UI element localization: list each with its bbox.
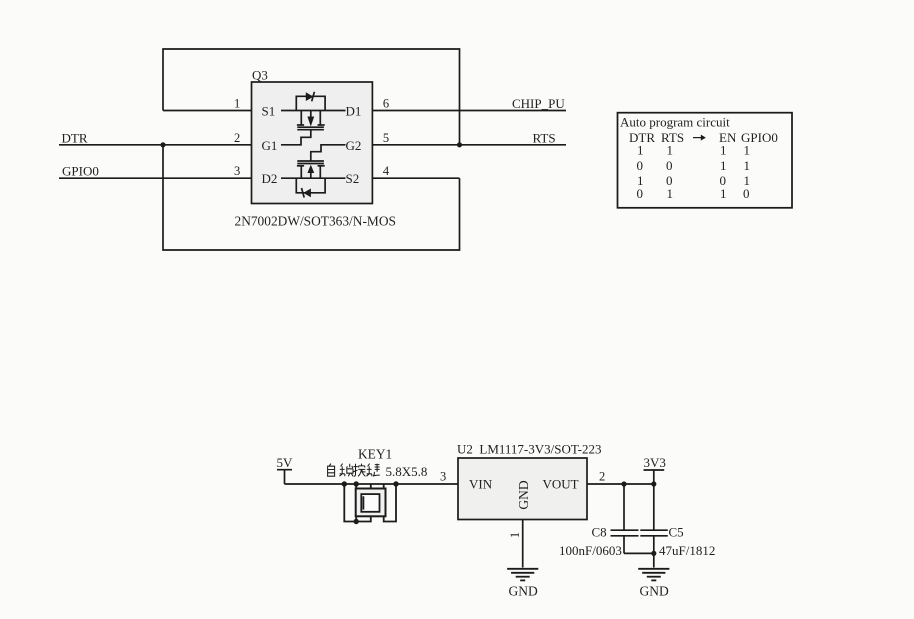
svg-text:1: 1	[720, 143, 727, 158]
ground symbol left	[507, 569, 538, 581]
wire: pin5 G2 to RTS	[372, 144, 566, 146]
svg-text:C5: C5	[669, 525, 684, 540]
svg-text:D2: D2	[262, 171, 278, 186]
mosfet M2 channel bar upper	[297, 160, 324, 162]
mosfet M1 diode cathode bar	[312, 92, 315, 102]
junction dot: switch right	[393, 481, 398, 486]
svg-text:1: 1	[720, 186, 727, 201]
svg-text:0: 0	[637, 186, 644, 201]
mosfet M1 drain serif	[318, 124, 325, 126]
glyph jian	[367, 464, 380, 477]
wire: VOUT to 3V3	[587, 483, 654, 485]
svg-text:1: 1	[667, 186, 674, 201]
mosfet M2 channel bar lower	[297, 163, 324, 165]
junction dot: switch bottom	[354, 519, 359, 524]
svg-text:Q3: Q3	[252, 68, 268, 83]
svg-text:C8: C8	[592, 525, 607, 540]
svg-text:1: 1	[720, 158, 727, 173]
mosfet M1 channel bar upper	[297, 126, 324, 128]
svg-text:1: 1	[508, 532, 522, 538]
switch pin stub top-left	[355, 484, 357, 489]
mosfet M2 source contact	[319, 166, 321, 178]
mosfet M1 drain contact	[319, 111, 321, 126]
junction dot: DTR node	[160, 142, 165, 147]
junction dot: C8 top	[621, 481, 626, 486]
svg-text:5.8X5.8: 5.8X5.8	[386, 464, 428, 479]
wire: S1 pin1 to top rail to RTS junction	[163, 49, 460, 145]
wire: GPIO0 lead to pin3 D2	[59, 177, 252, 179]
svg-text:RTS: RTS	[533, 130, 556, 145]
svg-text:0: 0	[637, 158, 644, 173]
wire: pin4 S2 lead	[372, 177, 459, 179]
switch pin stub top-mid	[370, 484, 372, 489]
switch left loop wire	[344, 484, 371, 522]
svg-text:3: 3	[440, 470, 446, 484]
mosfet M1 source serif	[297, 124, 304, 126]
svg-text:47uF/1812: 47uF/1812	[659, 543, 715, 558]
mosfet M2 body arrow head	[307, 165, 314, 173]
mosfet M2 source serif	[318, 165, 325, 167]
wire: cap bottoms rail	[624, 553, 654, 567]
wire: DTR junction down bottom rail to pin4 S2	[163, 145, 460, 250]
svg-text:GND: GND	[640, 584, 669, 599]
svg-text:6: 6	[383, 97, 389, 111]
svg-text:2: 2	[234, 131, 240, 145]
svg-text:1: 1	[637, 143, 644, 158]
svg-text:U2 LM1117-3V3/SOT-223: U2 LM1117-3V3/SOT-223	[457, 442, 601, 457]
svg-text:Auto program circuit: Auto program circuit	[620, 115, 730, 130]
svg-text:4: 4	[383, 164, 390, 178]
wire: pin1 S1 lead	[163, 110, 252, 112]
wire: pin6 D1 to CHIP_PU	[372, 110, 566, 112]
switch body	[356, 489, 386, 517]
mosfet M1 diode triangle	[306, 92, 314, 101]
svg-text:1: 1	[667, 143, 674, 158]
svg-text:3V3: 3V3	[644, 455, 666, 470]
svg-text:1: 1	[744, 143, 751, 158]
mosfet M1 body arrow head	[307, 117, 314, 127]
glyph suo	[340, 464, 354, 477]
svg-text:DTR: DTR	[62, 130, 88, 145]
mosfet M1 body-diode loop	[296, 96, 325, 110]
capacitor C5	[640, 484, 668, 553]
junction dot: switch left	[342, 481, 347, 486]
svg-text:D1: D1	[346, 104, 362, 119]
wire: S1 internal lead	[281, 110, 346, 112]
wire: D2 internal lead	[281, 177, 346, 179]
mosfet M2 gate path to G2	[311, 145, 346, 161]
svg-text:S2: S2	[346, 171, 360, 186]
svg-text:100nF/0603: 100nF/0603	[559, 543, 622, 558]
glyph zi	[328, 464, 335, 477]
switch plunger square	[361, 494, 379, 512]
capacitor C8	[611, 484, 639, 553]
wire: switch top through wire	[344, 483, 458, 485]
mosfet M2 drain serif	[297, 165, 304, 167]
wire: DTR lead to pin2 G1	[59, 144, 252, 146]
mosfet M2 diode cathode bar	[302, 188, 305, 198]
svg-text:0: 0	[743, 186, 750, 201]
switch pin stub top-right	[383, 484, 385, 489]
svg-text:VIN: VIN	[469, 477, 493, 492]
switch right loop wire	[384, 484, 396, 522]
junction dot: switch pin1	[354, 481, 359, 486]
mosfet M1 gate path to G1	[281, 130, 311, 145]
svg-text:G2: G2	[346, 138, 362, 153]
svg-text:2: 2	[599, 470, 605, 484]
svg-text:G1: G1	[262, 138, 278, 153]
junction dot: RTS node	[457, 142, 462, 147]
mosfet M1 body arrow shaft	[310, 111, 312, 118]
svg-text:0: 0	[666, 158, 673, 173]
table: auto program circuit box	[618, 113, 793, 208]
ground symbol right	[638, 569, 669, 581]
mosfet M2 diode triangle	[303, 189, 311, 198]
svg-text:3: 3	[234, 164, 240, 178]
mosfet M2 drain contact	[300, 166, 302, 178]
svg-text:VOUT: VOUT	[543, 477, 579, 492]
mosfet M1 (top) internals	[281, 92, 346, 145]
switch plunger bar	[362, 496, 364, 509]
svg-text:GND: GND	[509, 584, 538, 599]
svg-text:5: 5	[383, 131, 389, 145]
mosfet M1 source contact	[300, 111, 302, 126]
mosfet M1 channel bar lower	[297, 129, 324, 131]
junction dot: gnd rail	[651, 551, 656, 556]
svg-text:1: 1	[234, 97, 240, 111]
svg-text:CHIP_PU: CHIP_PU	[512, 96, 565, 111]
junction dot: 3V3 node	[651, 481, 656, 486]
svg-text:GND: GND	[516, 480, 531, 509]
svg-text:1: 1	[744, 158, 751, 173]
svg-text:S1: S1	[262, 104, 276, 119]
svg-text:GPIO0: GPIO0	[62, 164, 99, 179]
svg-text:2N7002DW/SOT363/N-MOS: 2N7002DW/SOT363/N-MOS	[235, 214, 396, 229]
label KEY1 chinese: zi suo an jian (drawn glyphs)	[328, 464, 380, 477]
switch pin stub bottom-left	[355, 516, 357, 521]
mosfet M2 (bottom) internals	[281, 145, 346, 198]
mosfet M2 body arrow shaft	[310, 173, 312, 179]
svg-text:KEY1: KEY1	[358, 447, 392, 462]
svg-text:5V: 5V	[277, 455, 294, 470]
transistor Q3 body box	[252, 82, 373, 204]
mosfet M2 body-diode loop	[296, 178, 325, 193]
wire: U2 GND pin down	[522, 520, 524, 568]
glyph an	[353, 464, 365, 477]
regulator U2 box	[458, 458, 587, 520]
